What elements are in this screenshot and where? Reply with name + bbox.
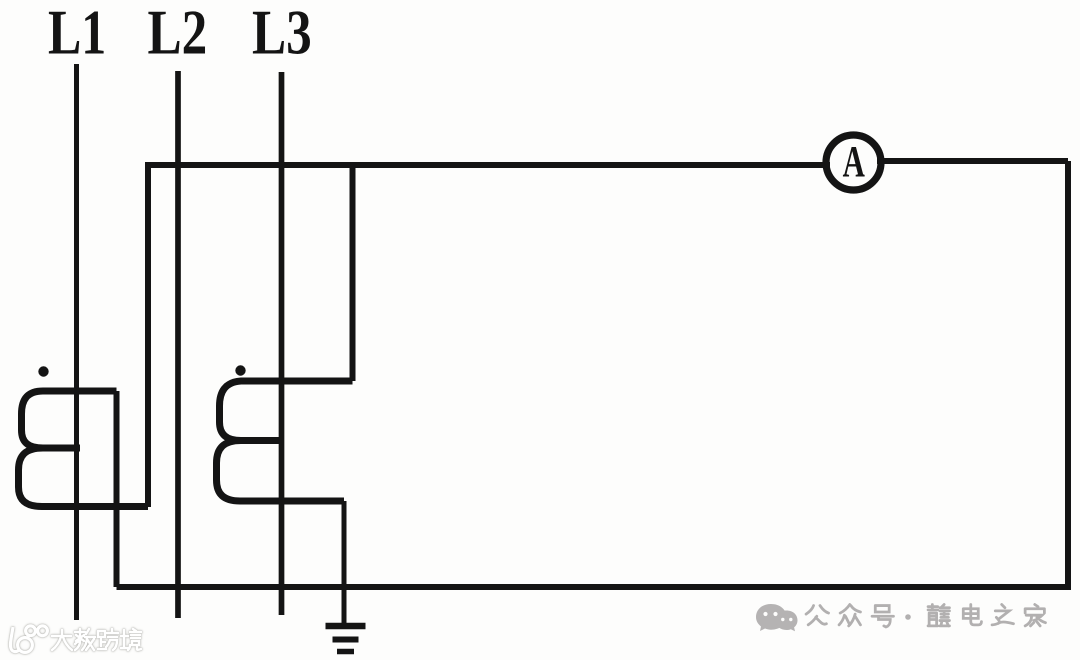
ground symbol bar 1 [326, 623, 366, 630]
wire CT2 k2 drop to ground [342, 501, 347, 624]
svg-text:A: A [843, 138, 866, 187]
char 电 [963, 605, 981, 625]
svg-text:L1: L1 [48, 0, 106, 68]
watermark left text: 大数跨境 [52, 629, 141, 650]
watermark left: 10x100 logo [10, 626, 47, 653]
wire L3 phase conductor [279, 72, 285, 615]
char 家 [1025, 605, 1045, 626]
CT2 secondary winding lower loop with S2 lead [217, 441, 345, 502]
char 赣 [928, 605, 949, 626]
wire right side drop [1065, 161, 1071, 587]
wire L1 phase conductor [74, 64, 79, 620]
CT1 secondary winding upper loop with S1 lead [22, 391, 117, 448]
char 大 [52, 630, 72, 650]
svg-text:L2: L2 [148, 0, 208, 68]
top bus wire left segment [148, 162, 830, 168]
bottom bus wire [117, 584, 1072, 590]
ground symbol bar 3 [337, 649, 354, 655]
ammeter A circle [826, 135, 881, 190]
wire L2 phase conductor [175, 71, 181, 618]
watermark right text: 公众号·赣电之家 [806, 605, 1045, 627]
wire CT2 k1 drop from top bus [350, 165, 356, 381]
char 众 [839, 605, 860, 626]
phase label L2 [148, 0, 208, 68]
char 号 [872, 606, 893, 627]
watermark right: wechat icon [756, 604, 798, 631]
CT2 polarity dot [235, 365, 245, 375]
CT2 secondary winding upper loop with S1 lead [220, 381, 353, 441]
char 境 [121, 629, 141, 650]
char 数 [75, 629, 95, 650]
wire CT1 k2 riser to top bus [145, 162, 151, 507]
wire CT1 k1 drop to bottom bus [114, 391, 120, 587]
char 公 [806, 606, 828, 625]
phase label L3 [252, 0, 312, 68]
middot [905, 614, 911, 620]
phase label L1 [48, 0, 106, 68]
ground symbol bar 2 [333, 637, 359, 643]
char 跨 [98, 629, 118, 650]
char 之 [992, 605, 1013, 625]
svg-text:L3: L3 [252, 0, 312, 68]
top bus wire right segment [877, 158, 1068, 164]
ammeter letter A [843, 138, 866, 187]
CT1 polarity dot [38, 366, 48, 376]
CT1 secondary winding lower loop with S2 lead [19, 448, 149, 507]
